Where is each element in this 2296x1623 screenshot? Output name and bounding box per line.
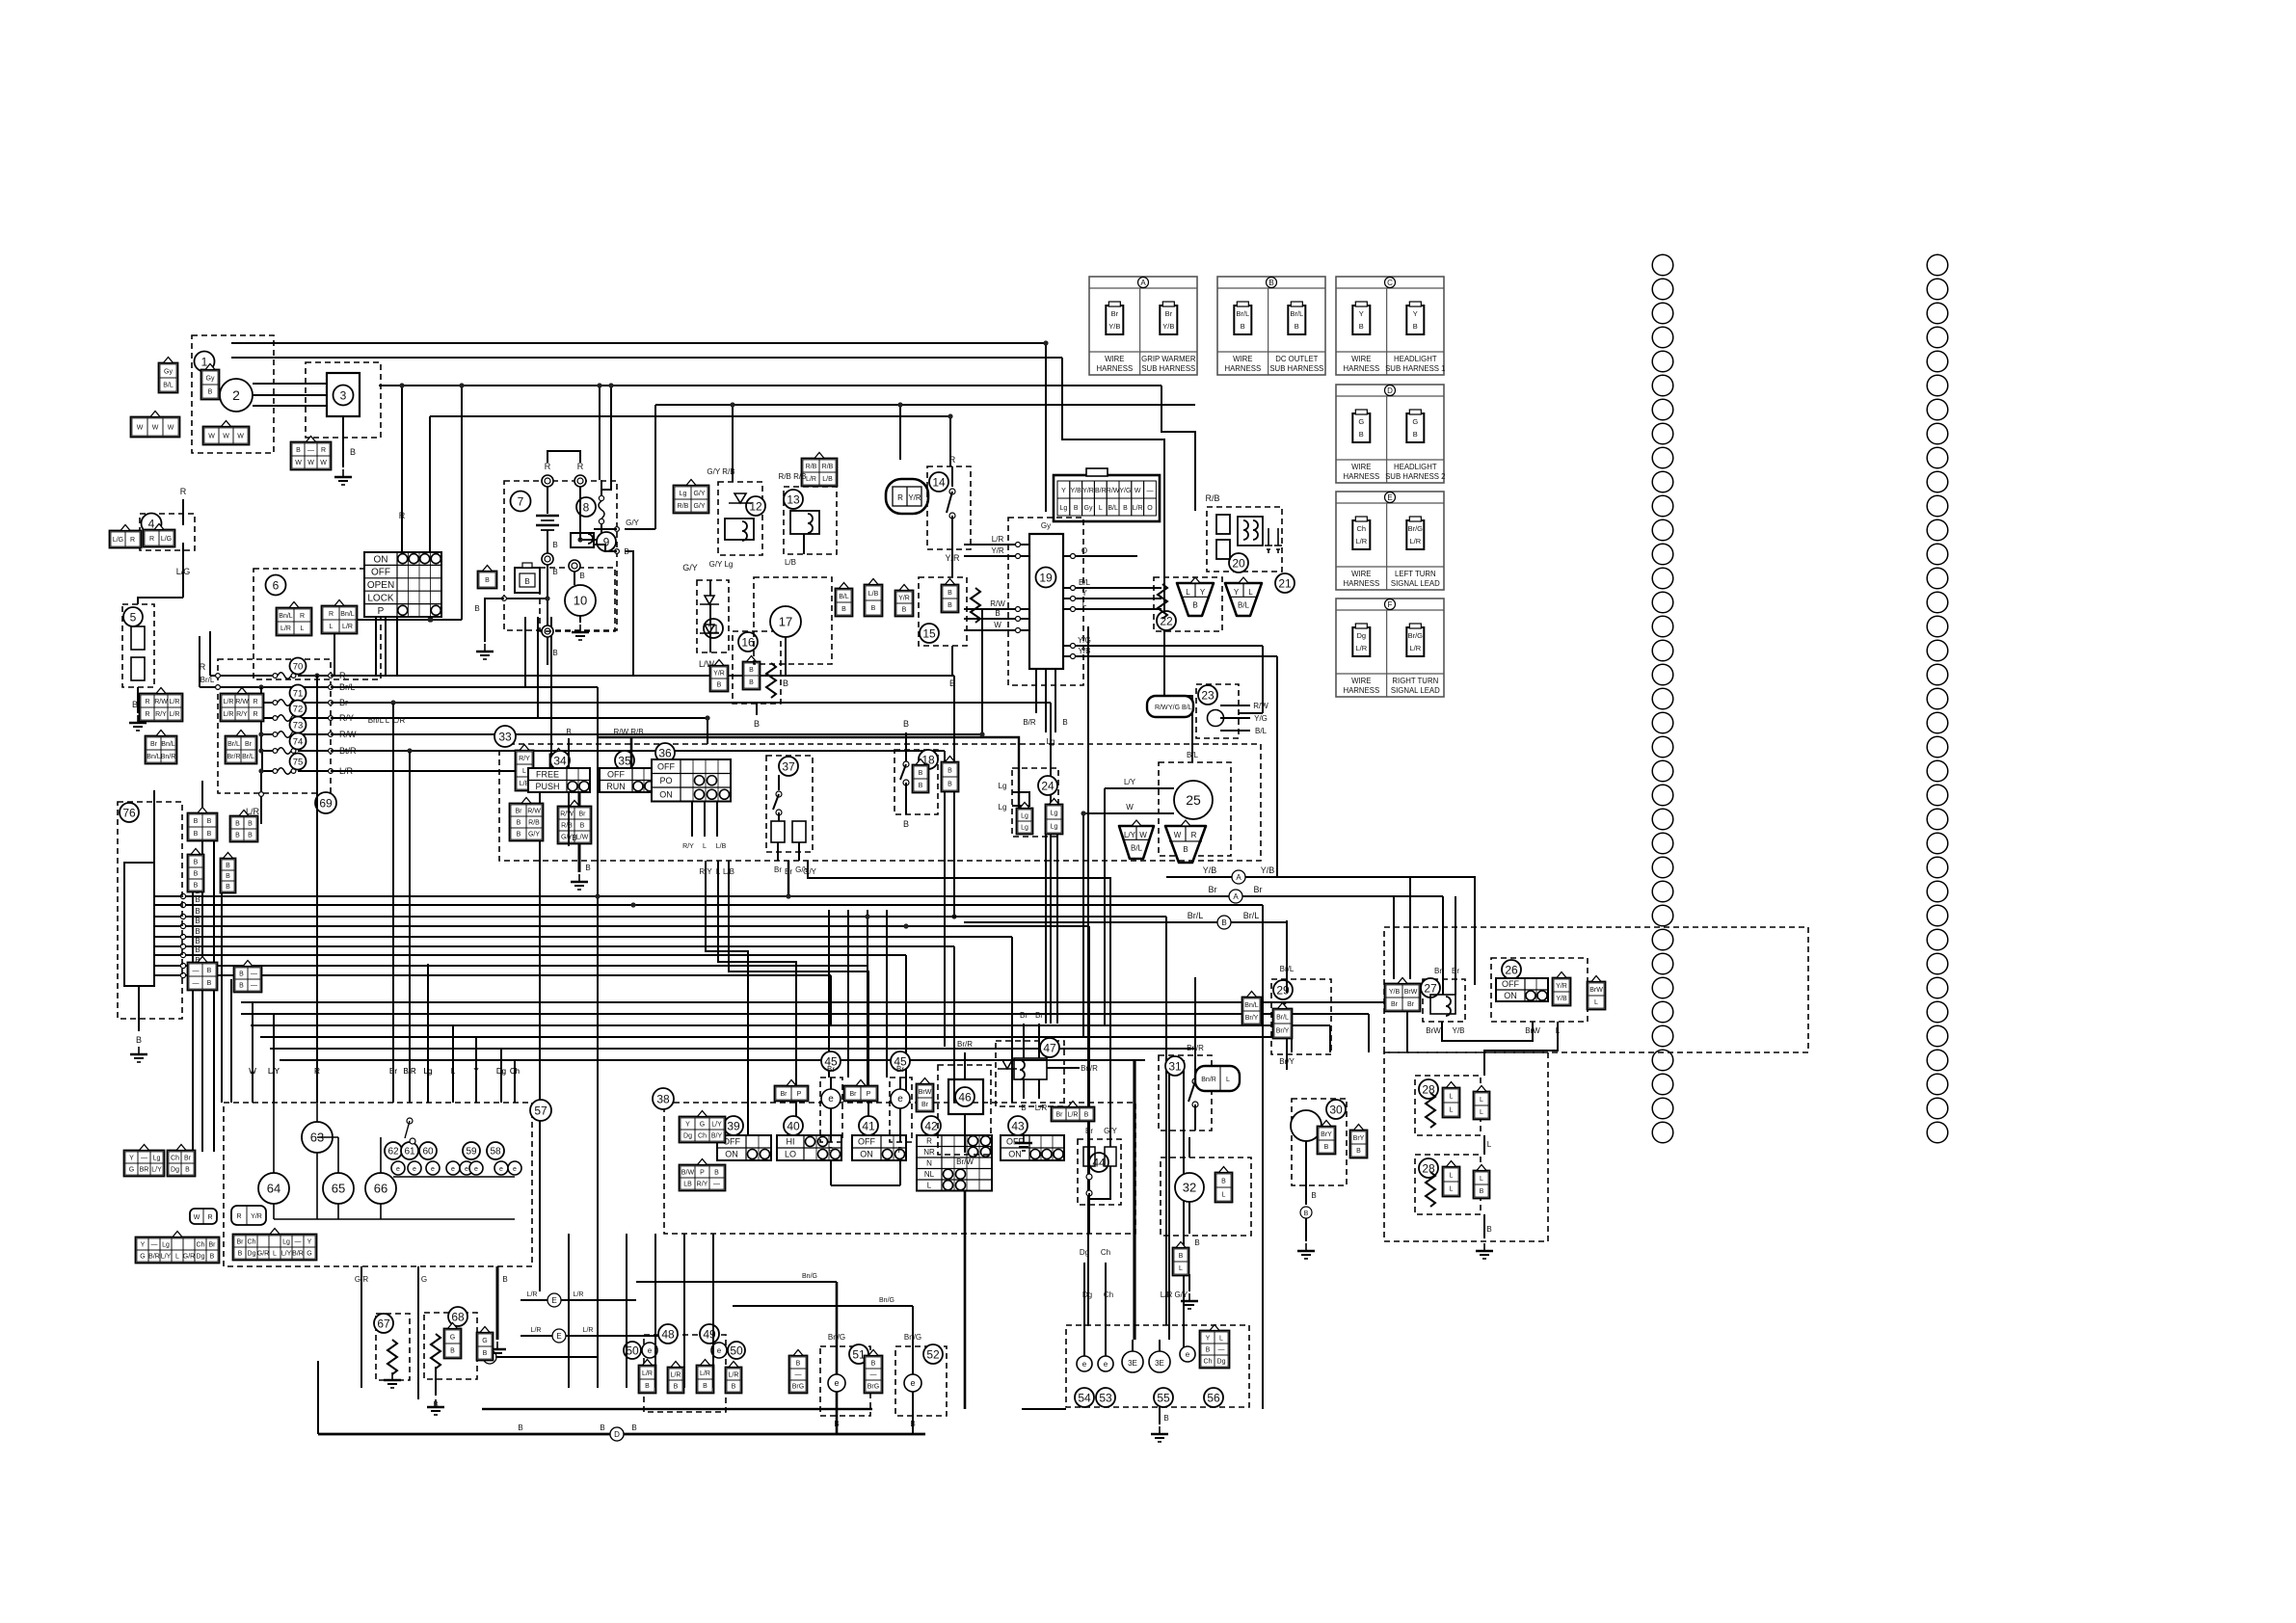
svg-text:B: B (1480, 1188, 1484, 1195)
svg-text:R: R (1191, 831, 1197, 839)
component 25 box (1159, 762, 1231, 856)
wire 15 down (951, 646, 953, 675)
svg-text:Dg: Dg (171, 1167, 179, 1174)
terminal B left (502, 597, 507, 601)
svg-text:SUB HARNESS: SUB HARNESS (1141, 364, 1195, 373)
rail Br (331, 702, 1051, 704)
component 32 box (1161, 1157, 1251, 1236)
wire B/L route (1062, 358, 1192, 762)
svg-text:B: B (1183, 845, 1188, 854)
svg-text:P: P (700, 1170, 705, 1177)
svg-text:Br: Br (184, 1156, 192, 1162)
svg-text:Br/G: Br/G (1408, 524, 1424, 533)
table 43 OFF/ON (1001, 1135, 1064, 1160)
svg-text:HEADLIGHT: HEADLIGHT (1394, 463, 1437, 471)
wire ECU right L (1063, 608, 1137, 610)
component 46 (955, 1087, 974, 1106)
svg-text:Br: Br (1209, 885, 1217, 894)
svg-text:R/Y: R/Y (155, 711, 167, 718)
svg-text:W: W (223, 434, 229, 440)
wire 25 W (1083, 812, 1174, 814)
svg-text:B: B (1221, 918, 1226, 927)
svg-text:Br/L: Br/L (1280, 965, 1295, 973)
svg-text:e: e (828, 1094, 834, 1104)
ground 10 (572, 625, 589, 640)
svg-text:B: B (585, 864, 590, 872)
svg-text:4: 4 (148, 517, 155, 530)
terminal Bt/R (329, 749, 334, 754)
svg-text:Y/R: Y/R (1082, 488, 1094, 494)
wire 23 R/W (1220, 705, 1250, 706)
svg-text:Br/L: Br/L (1188, 911, 1204, 920)
svg-text:B: B (1062, 718, 1067, 727)
wire central v2 1097 (1056, 829, 1058, 1024)
wire 57 Lg (427, 1079, 429, 1103)
connector left bottom a (124, 1145, 165, 1177)
bulb cluster 520 (494, 1161, 508, 1175)
wire GY left drop (654, 405, 656, 529)
wire W drop (1082, 813, 1084, 1037)
bulb 55a (1122, 1351, 1143, 1372)
wire 57 L (452, 1079, 454, 1103)
wire R to fuse70 (210, 675, 273, 677)
svg-text:B: B (518, 1423, 522, 1432)
svg-text:10: 10 (574, 594, 587, 608)
junction dot 408-729 (390, 700, 395, 705)
wire drop fuse70 (461, 386, 463, 620)
svg-text:B: B (1163, 1414, 1168, 1423)
connector 47b (1052, 1102, 1095, 1122)
wire fuse L/R right (298, 770, 331, 772)
component 31 (1165, 1056, 1185, 1076)
wire 57 feeder Y (475, 1037, 477, 1103)
svg-text:L/R G/Y: L/R G/Y (1161, 1290, 1188, 1299)
svg-text:B: B (248, 833, 253, 839)
wire 51 B out (836, 1416, 839, 1434)
wire 36 d2 (704, 802, 706, 837)
wire bottom v 740 (712, 1234, 714, 1367)
pin ECU r B/L (1071, 586, 1076, 591)
svg-text:Br/L: Br/L (1276, 1015, 1289, 1022)
fuse 8 (599, 495, 604, 523)
component 51 box (820, 1346, 870, 1416)
fuse 71 (273, 700, 296, 706)
svg-text:Ch: Ch (171, 1156, 179, 1162)
svg-text:P: P (378, 606, 385, 617)
connector 29a (1242, 992, 1262, 1025)
svg-text:R/B: R/B (1205, 493, 1219, 503)
wire 9 B (594, 545, 617, 551)
component 50b (728, 1342, 745, 1359)
svg-text:B: B (1192, 600, 1197, 609)
rail LR drop (539, 771, 541, 1291)
starter bolt (569, 560, 580, 572)
link circle B 30 (1300, 1207, 1312, 1218)
connector 48c (697, 1360, 714, 1394)
svg-text:37: 37 (782, 759, 795, 773)
svg-text:BrG: BrG (792, 1384, 804, 1391)
svg-text:R: R (329, 611, 334, 618)
fuse number 73 (290, 717, 307, 733)
rail RW (331, 733, 982, 735)
wire 45 1 up (830, 1078, 832, 1089)
wire 57 feeder Ch (514, 1060, 516, 1103)
wire ECU right Y/B (1063, 655, 1137, 657)
ignition coil 20 (1216, 515, 1263, 559)
wire low bundle 5 (270, 1048, 1195, 1050)
wire ECU bottom 1 (1035, 669, 1037, 713)
wire 45 2 up (899, 1078, 901, 1089)
svg-text:Br/R: Br/R (227, 754, 241, 760)
wire 52 dn (912, 1392, 914, 1416)
svg-text:B: B (1359, 430, 1364, 439)
wire P drop 45b (899, 1153, 901, 1185)
diode 12 (729, 493, 752, 503)
svg-text:L/R: L/R (1355, 644, 1367, 652)
wire tail GY (1183, 1060, 1185, 1347)
svg-text:9: 9 (603, 535, 610, 548)
svg-text:26: 26 (1505, 963, 1518, 976)
wire key col3 a (375, 617, 377, 675)
component 45 num 1 (821, 1051, 841, 1071)
svg-text:R: R (207, 1214, 212, 1221)
component 28 box 2 (1415, 1155, 1481, 1214)
svg-text:E: E (1387, 493, 1392, 502)
svg-text:R: R (926, 1137, 932, 1146)
svg-text:Br: Br (237, 1239, 245, 1246)
connector 68b (477, 1327, 494, 1361)
svg-text:B: B (194, 860, 199, 866)
svg-text:ON: ON (860, 1150, 873, 1159)
svg-text:—: — (251, 983, 257, 990)
wire L 36 down (718, 861, 796, 1135)
svg-text:Y: Y (1206, 1336, 1211, 1343)
component 21 (1275, 573, 1295, 593)
component 1 (195, 352, 215, 372)
wire fuse bus 75 (261, 751, 263, 771)
oval connector R|Y/R (886, 479, 928, 514)
svg-text:Lg: Lg (1021, 813, 1028, 820)
wire ECU Y right (1063, 598, 1161, 599)
wire 68 dn (435, 1367, 437, 1396)
svg-text:Lg: Lg (162, 1242, 170, 1249)
wire 52 B out (912, 1416, 914, 1434)
svg-text:B/R: B/R (1095, 488, 1107, 494)
svg-text:L/R: L/R (1035, 1104, 1048, 1112)
component 16 (738, 632, 758, 652)
wire 34 B down (568, 792, 570, 846)
svg-text:R/W: R/W (990, 599, 1005, 608)
svg-text:B: B (674, 1384, 679, 1391)
wire low drop a (1406, 1002, 1408, 1052)
svg-text:L/B: L/B (868, 591, 879, 598)
switch 44 b (1105, 1147, 1116, 1166)
svg-text:8: 8 (583, 500, 590, 514)
svg-text:B: B (903, 819, 909, 829)
junction dot 900-951 (865, 914, 869, 918)
svg-text:40: 40 (787, 1119, 800, 1132)
terminal R/W (329, 732, 334, 737)
svg-text:L/R: L/R (224, 711, 234, 718)
svg-text:G: G (1412, 417, 1418, 426)
pin ECU r Y (1071, 597, 1076, 601)
wire 11 v2 (709, 604, 711, 625)
svg-text:R/W: R/W (1107, 488, 1120, 494)
svg-text:W: W (152, 425, 159, 432)
svg-text:HARNESS: HARNESS (1343, 686, 1379, 695)
svg-text:74: 74 (293, 736, 304, 747)
svg-text:B: B (948, 768, 952, 775)
connector 30b (1350, 1125, 1368, 1158)
svg-text:Y/R: Y/R (713, 671, 725, 678)
svg-text:Lg: Lg (1051, 824, 1058, 831)
svg-text:—: — (713, 1182, 720, 1188)
junction dot 734-745 (705, 715, 709, 720)
coil 13 (808, 514, 813, 533)
connector 28b 2 (1474, 1165, 1490, 1199)
wire left col a (201, 781, 203, 1152)
svg-text:L: L (1450, 1186, 1454, 1193)
wire 52 feed (733, 1305, 913, 1307)
svg-text:R: R (253, 711, 257, 718)
triangle connector Y|L|B/L (1225, 577, 1262, 616)
component 32 lamp (1175, 1173, 1204, 1202)
component 29 box (1271, 979, 1331, 1054)
svg-text:39: 39 (727, 1119, 740, 1132)
svg-text:L: L (1450, 1107, 1454, 1114)
svg-text:L/B: L/B (723, 867, 734, 876)
svg-text:L/Y: L/Y (711, 1122, 722, 1129)
connector 13 top (802, 453, 838, 487)
svg-text:B: B (754, 719, 760, 729)
svg-text:Br: Br (921, 1102, 929, 1108)
svg-text:L: L (1219, 1336, 1223, 1343)
wire 12 drop (732, 405, 734, 482)
wire R feed (209, 631, 211, 676)
wire 32 gnd (1188, 1274, 1190, 1291)
component 30 (1326, 1100, 1346, 1119)
wire fuse bus (260, 687, 262, 751)
ground 3 (334, 469, 352, 485)
wire 15 YR (951, 549, 953, 577)
wire fuse R/W left (261, 733, 273, 735)
sw31b (1192, 1102, 1198, 1107)
svg-text:B: B (902, 607, 907, 614)
svg-text:R/Y: R/Y (682, 843, 694, 850)
component 1 box (192, 335, 274, 453)
rail BrL right (331, 686, 598, 688)
wire 37 out1 (777, 842, 779, 861)
rounded connector W|R (190, 1209, 217, 1224)
svg-text:33: 33 (498, 730, 512, 743)
wire 52 up (912, 1346, 914, 1374)
wire low bundle 6 (280, 1059, 1145, 1061)
wire ECU left R/W (964, 608, 1029, 610)
sw18b (903, 780, 909, 785)
component 7 (511, 492, 531, 512)
wire ECU left Y/R (964, 555, 1029, 557)
svg-text:Y/R: Y/R (991, 546, 1004, 555)
wire B bus 5 (154, 936, 1012, 938)
wire bottom left corner (317, 1361, 319, 1434)
component 7 box (504, 481, 617, 630)
svg-text:ON: ON (374, 554, 388, 565)
svg-text:Br/R: Br/R (957, 1040, 973, 1049)
svg-text:Br/L: Br/L (1243, 911, 1260, 920)
wire R key drop (401, 386, 403, 552)
wire 57 feeder W (252, 1002, 254, 1103)
svg-text:B: B (1123, 505, 1128, 512)
svg-text:Y/G: Y/G (1078, 636, 1091, 645)
svg-text:B: B (579, 572, 584, 580)
svg-text:15: 15 (922, 626, 936, 640)
component 33 box (499, 744, 1261, 861)
component 22 box (1154, 577, 1222, 631)
bulb cluster 534 (508, 1161, 521, 1175)
svg-text:Y: Y (307, 1239, 312, 1246)
bulb 45 1 (821, 1089, 841, 1108)
wire bottom v 680 (654, 1234, 656, 1367)
wire 47 up2 (1038, 1024, 1040, 1058)
svg-text:—: — (141, 1156, 147, 1162)
svg-text:50: 50 (730, 1344, 743, 1357)
wire 14 sw (947, 492, 952, 513)
svg-text:BrG: BrG (868, 1384, 879, 1391)
svg-text:Y/B: Y/B (1079, 647, 1091, 655)
junction fuse R/Y (258, 715, 263, 720)
component 10 starter (565, 585, 596, 616)
svg-text:G: G (421, 1275, 427, 1284)
wire low bundle 1 (241, 1001, 1407, 1003)
sw14 a (949, 489, 955, 494)
svg-text:HEADLIGHT: HEADLIGHT (1394, 355, 1437, 363)
wire 11 v (709, 580, 711, 596)
svg-text:19: 19 (1039, 571, 1053, 584)
svg-text:B: B (566, 728, 571, 736)
svg-text:B: B (194, 871, 199, 878)
relay 27 (1430, 995, 1455, 1014)
svg-text:G/R: G/R (183, 1254, 195, 1261)
svg-text:B: B (717, 682, 722, 689)
svg-text:—: — (307, 447, 314, 454)
svg-text:B: B (948, 602, 952, 609)
component 5 (123, 607, 143, 626)
svg-text:21: 21 (1278, 576, 1292, 590)
svg-text:e: e (717, 1346, 722, 1355)
svg-text:W: W (194, 1214, 200, 1221)
svg-text:W: W (237, 434, 244, 440)
switch 44 a (1083, 1147, 1095, 1166)
wire 2-3 W1 (253, 383, 327, 385)
coil 20b (1253, 520, 1258, 540)
svg-text:68: 68 (451, 1310, 465, 1323)
component 47 box (996, 1041, 1064, 1106)
wire bat top link (547, 451, 580, 463)
svg-text:Br/L: Br/L (227, 741, 240, 748)
svg-text:1: 1 (201, 355, 208, 368)
svg-text:A: A (1233, 892, 1239, 901)
connector R L/G (144, 524, 175, 547)
wire 28 chain (1483, 1068, 1485, 1076)
triangle connector L|Y|B (1177, 577, 1214, 616)
svg-text:Br: Br (1407, 1001, 1415, 1008)
terminal bus 5 (180, 934, 185, 939)
link circle E1 (547, 1293, 561, 1307)
svg-text:B: B (871, 605, 876, 612)
svg-text:2: 2 (232, 387, 240, 403)
component 11 box (697, 580, 729, 652)
wire 44 sw (1088, 1166, 1090, 1174)
wire 32 v (1188, 1137, 1190, 1157)
svg-text:W: W (994, 621, 1001, 629)
wire B bus drop 3 (1165, 917, 1167, 1325)
connector 57 long a (136, 1232, 220, 1264)
wire B bus drop 7 (905, 955, 907, 1103)
svg-text:L/G: L/G (176, 567, 191, 576)
svg-text:64: 64 (267, 1182, 280, 1196)
connector 51 (789, 1350, 808, 1394)
connector 27 top (1385, 978, 1421, 1012)
svg-text:Lg: Lg (424, 1067, 433, 1076)
svg-text:L/Y: L/Y (1124, 778, 1136, 786)
component 55 (1154, 1388, 1173, 1407)
junction Br bus (786, 893, 790, 898)
component 30 box (1292, 1099, 1347, 1185)
svg-text:R: R (545, 462, 551, 471)
svg-text:Y: Y (1234, 588, 1240, 597)
svg-text:3E: 3E (1155, 1359, 1164, 1368)
svg-text:B/W: B/W (681, 1170, 695, 1177)
svg-text:BrW: BrW (919, 1089, 932, 1096)
svg-text:—: — (193, 980, 200, 987)
svg-text:Lg: Lg (999, 803, 1007, 811)
component 59 (463, 1142, 480, 1159)
wire BrL feed (199, 636, 200, 687)
svg-text:e: e (396, 1166, 400, 1173)
svg-text:WIRE: WIRE (1233, 355, 1252, 363)
svg-text:R: R (149, 536, 154, 543)
svg-text:W: W (208, 434, 215, 440)
wire GY bus (655, 404, 1195, 406)
rounded connector R|Y/R (231, 1206, 266, 1225)
wire 29 in (1286, 920, 1288, 993)
junction R bus (951, 914, 956, 918)
rail BtR (331, 750, 945, 752)
svg-text:R: R (577, 462, 584, 471)
wire BrL row (200, 686, 331, 688)
svg-text:DC OUTLET: DC OUTLET (1275, 355, 1318, 363)
wire left mesh v (429, 416, 431, 620)
connector fuses b (221, 688, 264, 722)
svg-text:B: B (194, 818, 199, 825)
wire 46 up (964, 1052, 966, 1079)
svg-text:B: B (1221, 1179, 1226, 1185)
component 11 (704, 619, 723, 638)
pin ECU W (1016, 628, 1021, 633)
connector L/G R left (110, 525, 142, 548)
svg-text:G/Y Lg: G/Y Lg (709, 560, 734, 569)
component 25 meter (1174, 781, 1213, 819)
component 41 (859, 1116, 878, 1135)
rail LR (331, 770, 540, 772)
svg-text:—: — (1218, 1347, 1225, 1354)
svg-text:B: B (631, 1423, 636, 1432)
svg-text:5: 5 (130, 610, 137, 624)
component 39 (724, 1116, 743, 1135)
svg-text:B: B (195, 907, 200, 916)
svg-text:—: — (295, 1239, 302, 1246)
battery bolt mid (542, 553, 553, 565)
